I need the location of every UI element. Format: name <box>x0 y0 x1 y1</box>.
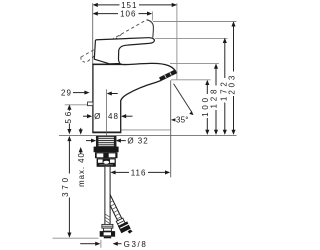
svg-text:29: 29 <box>61 88 72 97</box>
svg-text:106: 106 <box>120 10 136 19</box>
svg-text:203: 203 <box>228 73 237 95</box>
svg-text:116: 116 <box>131 168 147 177</box>
handle lever <box>94 38 154 64</box>
extension line back edge <box>92 3 94 64</box>
aerator <box>159 70 176 81</box>
base bottom extension line <box>121 129 171 131</box>
dimension max 40 <box>77 128 86 187</box>
vertical hose collar <box>102 224 113 228</box>
svg-text:56: 56 <box>64 109 73 124</box>
faucet body and spout <box>93 63 176 132</box>
raised handle dashed lower edge <box>88 34 122 61</box>
dimension diameter 32 <box>86 137 149 146</box>
dimension 203 <box>228 21 237 135</box>
diagonal hose <box>106 194 122 220</box>
extension line hose end <box>53 237 99 239</box>
svg-text:max. 40: max. 40 <box>77 152 86 187</box>
svg-text:370: 370 <box>61 175 70 197</box>
mounting nut <box>95 152 118 158</box>
lower fitting block <box>97 158 116 167</box>
svg-text:Ø 32: Ø 32 <box>127 137 148 146</box>
dimension 151 <box>93 1 177 10</box>
dimension 370 <box>61 136 71 238</box>
extension line 203 top <box>153 21 237 23</box>
extension line 128 top <box>170 63 219 65</box>
dimension G3/8 <box>80 240 147 249</box>
svg-text:Ø: Ø <box>94 112 101 121</box>
threaded shank <box>96 136 116 146</box>
extension line 172 top <box>155 37 227 39</box>
svg-text:151: 151 <box>121 1 137 10</box>
svg-text:128: 128 <box>209 87 218 109</box>
diagonal hose nut <box>118 221 131 233</box>
dimension 35 degrees <box>171 84 194 125</box>
dimension 56 <box>64 105 88 135</box>
svg-text:100: 100 <box>201 95 210 117</box>
svg-text:172: 172 <box>219 79 228 101</box>
deck line <box>59 135 237 137</box>
svg-text:48: 48 <box>108 112 119 121</box>
vertical hose <box>105 167 110 225</box>
svg-text:35°: 35° <box>176 116 189 125</box>
dimension 29 <box>61 88 118 97</box>
dimension 128 <box>209 64 218 135</box>
raised handle front curve <box>147 20 154 38</box>
extension line handle front <box>151 11 153 20</box>
extension line spout tip <box>176 3 178 79</box>
dimension 116 <box>110 168 170 177</box>
raised handle dashed top edge <box>81 20 147 57</box>
vertical hose neck <box>103 228 111 231</box>
vertical hose tail <box>104 237 111 239</box>
raised handle dashed back arc <box>81 57 87 62</box>
back bump <box>88 102 93 106</box>
body bottom <box>92 131 121 133</box>
mounting flange <box>94 147 119 153</box>
dimension 172 <box>219 38 228 135</box>
dimension diameter 48 <box>83 112 133 121</box>
diagonal hose tip <box>128 230 133 234</box>
vertical hose nut <box>100 231 115 237</box>
diagonal hose collar <box>116 218 125 227</box>
centerline <box>106 89 108 146</box>
body top seam <box>92 63 122 65</box>
dimension 100 <box>201 80 210 135</box>
svg-text:G3/8: G3/8 <box>124 240 148 249</box>
extension line 100 top <box>171 79 211 81</box>
aerator projection line <box>170 80 172 177</box>
dimension 106 <box>93 10 153 19</box>
